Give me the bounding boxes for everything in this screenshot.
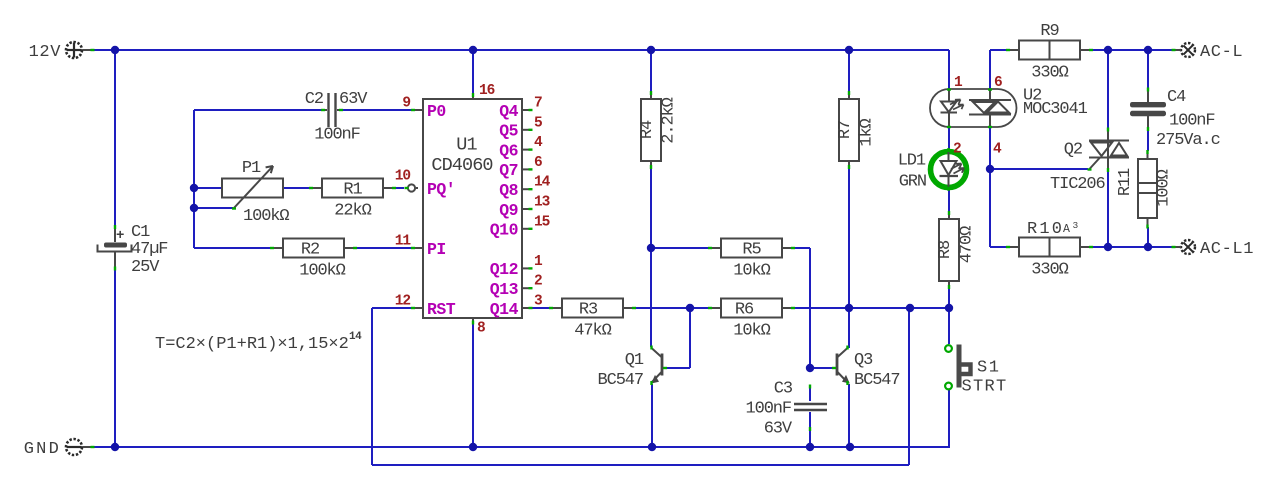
svg-text:Q2: Q2 xyxy=(1064,141,1082,160)
svg-text:STRT: STRT xyxy=(962,378,1008,397)
svg-text:U1: U1 xyxy=(456,135,477,156)
svg-text:BC547: BC547 xyxy=(597,371,643,390)
svg-text:63V: 63V xyxy=(339,90,368,109)
svg-text:R7: R7 xyxy=(836,121,855,139)
svg-text:Q10: Q10 xyxy=(490,221,518,240)
svg-text:330Ω: 330Ω xyxy=(1031,261,1068,280)
svg-text:100kΩ: 100kΩ xyxy=(243,207,289,226)
svg-text:R10: R10 xyxy=(1027,220,1064,239)
svg-text:BC547: BC547 xyxy=(854,371,900,390)
svg-text:R11: R11 xyxy=(1116,168,1135,196)
svg-text:Q1: Q1 xyxy=(625,351,644,370)
svg-text:Q14: Q14 xyxy=(490,300,519,319)
svg-text:AC-L1: AC-L1 xyxy=(1200,240,1254,259)
svg-text:22kΩ: 22kΩ xyxy=(334,202,371,221)
svg-text:10kΩ: 10kΩ xyxy=(733,322,770,341)
svg-text:13: 13 xyxy=(534,195,550,211)
svg-text:C4: C4 xyxy=(1167,88,1186,107)
svg-text:Q12: Q12 xyxy=(490,260,518,279)
svg-text:6: 6 xyxy=(534,155,542,171)
svg-text:14: 14 xyxy=(349,331,362,343)
svg-text:R4: R4 xyxy=(638,120,657,139)
svg-text:15: 15 xyxy=(534,214,550,230)
svg-text:100nF: 100nF xyxy=(314,126,360,145)
svg-text:275Va.c: 275Va.c xyxy=(1156,131,1220,150)
svg-text:R9: R9 xyxy=(1040,22,1059,41)
svg-text:AC-L: AC-L xyxy=(1200,43,1243,62)
svg-text:11: 11 xyxy=(395,234,412,250)
svg-text:R3: R3 xyxy=(579,301,598,320)
svg-text:9: 9 xyxy=(402,96,410,112)
svg-text:2.2kΩ: 2.2kΩ xyxy=(660,97,679,143)
svg-text:63V: 63V xyxy=(764,420,793,439)
svg-text:GRN: GRN xyxy=(899,173,926,192)
svg-text:RST: RST xyxy=(427,300,456,319)
svg-text:GND: GND xyxy=(24,440,61,459)
svg-text:2: 2 xyxy=(534,274,542,290)
svg-text:MOC3041: MOC3041 xyxy=(1023,100,1088,119)
svg-text:R5: R5 xyxy=(742,241,761,260)
svg-text:2: 2 xyxy=(953,142,961,158)
svg-text:Q4: Q4 xyxy=(499,102,518,121)
svg-text:R6: R6 xyxy=(735,301,754,320)
svg-text:PI: PI xyxy=(427,240,446,259)
svg-text:P1: P1 xyxy=(242,159,261,178)
svg-text:8: 8 xyxy=(477,321,485,337)
svg-text:Q5: Q5 xyxy=(499,122,518,141)
svg-text:R8: R8 xyxy=(936,240,955,259)
svg-text:Q9: Q9 xyxy=(499,201,518,220)
svg-text:47µF: 47µF xyxy=(131,240,167,259)
svg-text:Q8: Q8 xyxy=(499,181,518,200)
svg-text:Q13: Q13 xyxy=(490,280,519,299)
svg-text:7: 7 xyxy=(534,96,542,112)
svg-text:470Ω: 470Ω xyxy=(958,226,977,263)
svg-text:T=C2×(P1+R1)×1,15×2: T=C2×(P1+R1)×1,15×2 xyxy=(155,335,349,354)
svg-text:10: 10 xyxy=(395,169,411,185)
svg-text:330Ω: 330Ω xyxy=(1031,64,1068,83)
svg-text:100kΩ: 100kΩ xyxy=(299,262,345,281)
svg-text:5: 5 xyxy=(534,115,542,131)
svg-text:12V: 12V xyxy=(29,43,62,62)
svg-text:+: + xyxy=(116,228,124,244)
svg-text:LD1: LD1 xyxy=(898,152,926,171)
svg-text:47kΩ: 47kΩ xyxy=(574,322,611,341)
svg-text:C3: C3 xyxy=(774,380,793,399)
svg-text:14: 14 xyxy=(534,175,551,191)
svg-text:C2: C2 xyxy=(305,90,323,109)
svg-text:6: 6 xyxy=(994,75,1002,91)
svg-text:16: 16 xyxy=(479,83,495,99)
svg-text:100nF: 100nF xyxy=(745,400,791,419)
svg-text:CD4060: CD4060 xyxy=(431,155,492,176)
svg-text:1kΩ: 1kΩ xyxy=(858,118,877,146)
svg-text:Q6: Q6 xyxy=(499,141,518,160)
svg-text:Q3: Q3 xyxy=(854,351,873,370)
svg-text:R1: R1 xyxy=(343,181,362,200)
svg-text:12: 12 xyxy=(395,294,411,310)
svg-text:P0: P0 xyxy=(427,102,446,121)
svg-text:S1: S1 xyxy=(977,359,1000,378)
svg-text:3: 3 xyxy=(534,294,542,310)
svg-text:25V: 25V xyxy=(131,258,160,277)
svg-text:TIC206: TIC206 xyxy=(1050,175,1106,194)
svg-text:R2: R2 xyxy=(301,241,319,260)
svg-text:10kΩ: 10kΩ xyxy=(733,262,770,281)
svg-text:Q7: Q7 xyxy=(499,161,518,180)
svg-text:PQ': PQ' xyxy=(427,180,455,199)
svg-text:100Ω: 100Ω xyxy=(1155,169,1174,206)
svg-text:100nF: 100nF xyxy=(1169,112,1215,131)
